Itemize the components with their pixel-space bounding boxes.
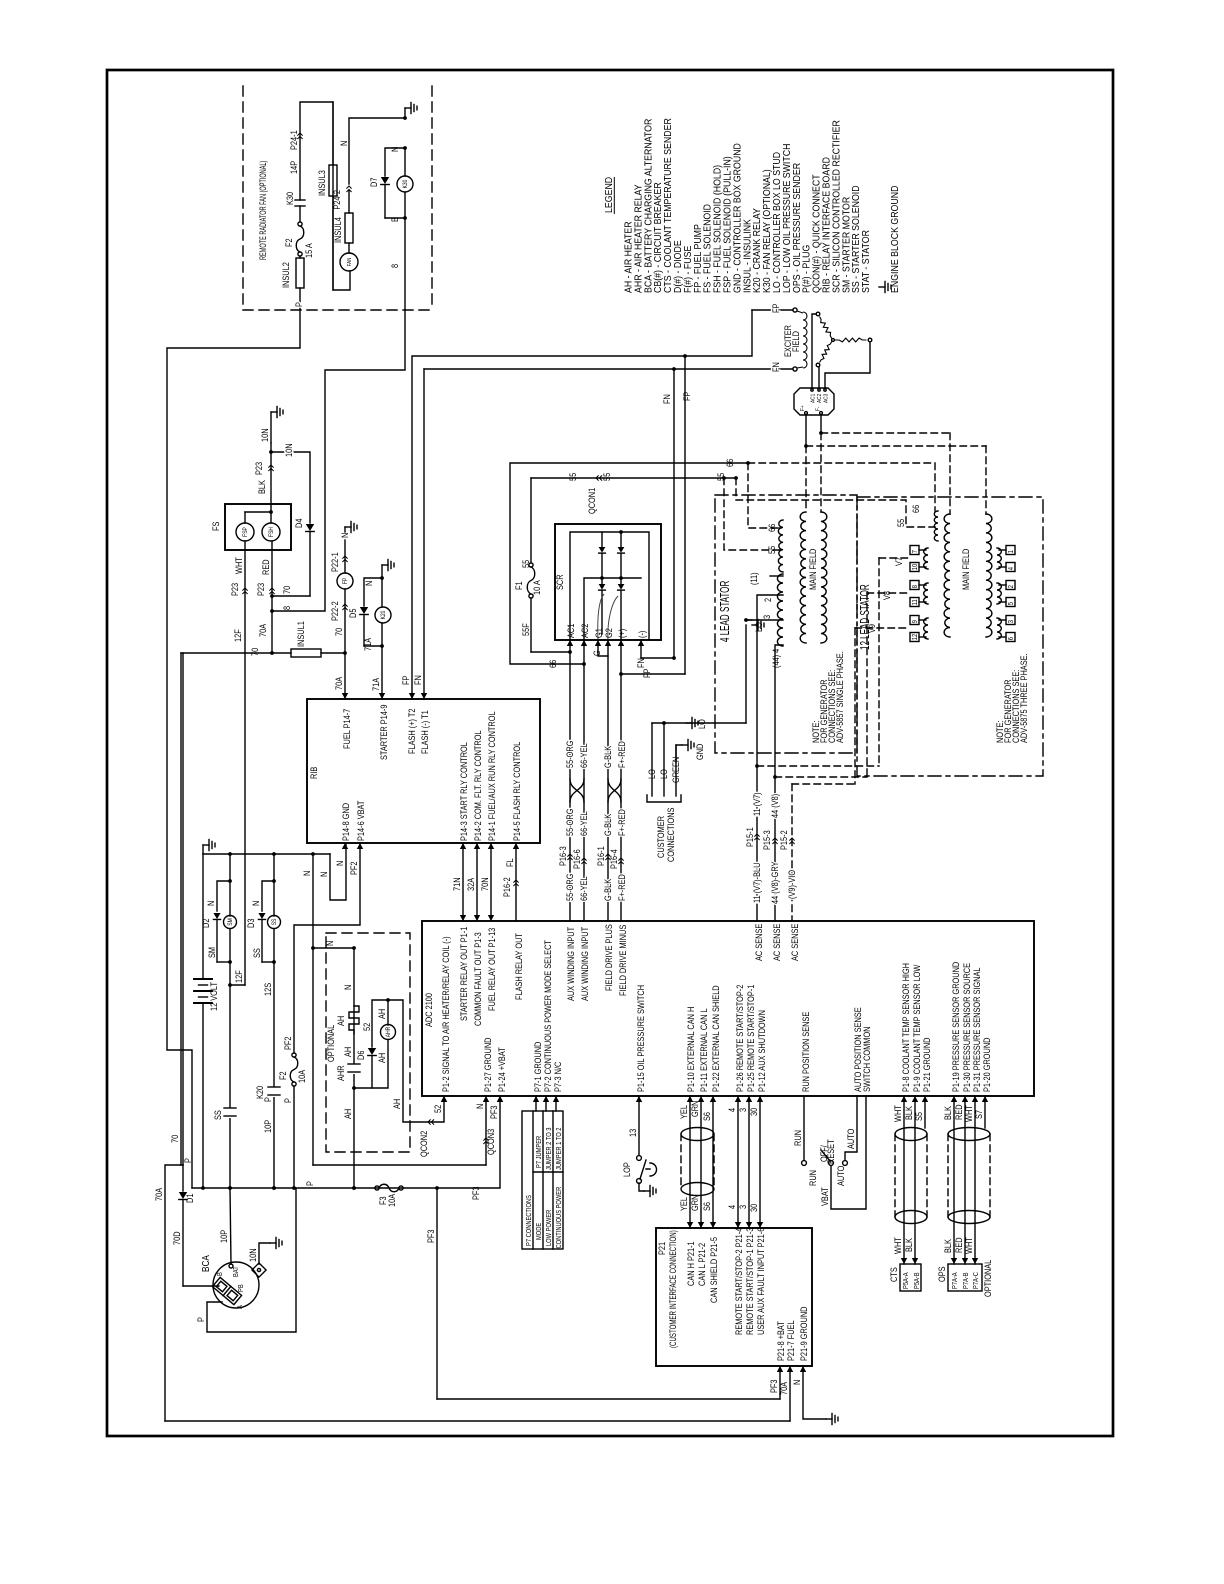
svg-text:G: G (592, 650, 602, 656)
svg-text:AUX WINDING INPUT: AUX WINDING INPUT (566, 927, 576, 1001)
plug P24-2 (346, 186, 351, 192)
svg-text:3: 3 (762, 615, 772, 619)
svg-text:PF3: PF3 (489, 1105, 499, 1119)
svg-text:ADC 2100: ADC 2100 (424, 993, 434, 1027)
svg-text:FN: FN (771, 362, 781, 372)
svg-text:66: 66 (548, 659, 558, 668)
wire 12S K20 contact (273, 962, 275, 1188)
svg-text:P1-24 +VBAT: P1-24 +VBAT (497, 1047, 507, 1092)
svg-text:P: P (294, 302, 304, 307)
battery 12 VOLT (202, 854, 204, 978)
svg-text:P1-26 REMOTE START/STOP-2: P1-26 REMOTE START/STOP-2 (735, 984, 745, 1092)
svg-text:RIB: RIB (309, 766, 319, 779)
wire CTS WHT (903, 1096, 905, 1264)
wire AH line (353, 948, 355, 1188)
svg-text:V8: V8 (882, 591, 892, 600)
svg-text:70: 70 (250, 647, 260, 656)
svg-text:CAN H P21-1: CAN H P21-1 (686, 1241, 696, 1286)
svg-text:P: P (183, 1158, 193, 1163)
svg-text:B: B (217, 1272, 225, 1276)
svg-text:P1-12 AUX SHUTDOWN: P1-12 AUX SHUTDOWN (757, 1010, 767, 1092)
svg-text:AUTO: AUTO (836, 1166, 846, 1186)
wire RED 70A from FSH (271, 541, 273, 653)
svg-text:MODE: MODE (536, 1223, 544, 1240)
svg-text:P21-9 GROUND: P21-9 GROUND (799, 1306, 809, 1361)
svg-text:REMOTE START/STOP-2 P21-4: REMOTE START/STOP-2 P21-4 (734, 1227, 744, 1335)
svg-text:YEL: YEL (679, 1197, 689, 1211)
svg-text:12S: 12S (263, 982, 273, 996)
svg-text:D4: D4 (294, 518, 304, 528)
wire P from PB-A (207, 1188, 296, 1332)
wire remote start 3 (748, 1096, 750, 1228)
exciter field winding (803, 312, 807, 368)
svg-text:70A: 70A (334, 676, 344, 690)
svg-text:G-BLK: G-BLK (603, 813, 613, 836)
ground K20 (381, 565, 383, 578)
svg-text:REMOTE START/STOP-1 P21-3: REMOTE START/STOP-1 P21-3 (745, 1227, 755, 1335)
svg-text:AC SENSE: AC SENSE (772, 923, 782, 961)
wire P7 jumpers (535, 1096, 537, 1111)
svg-text:FAN: FAN (347, 257, 354, 266)
OPS cable shield (948, 1128, 990, 1141)
svg-text:CONNECTIONS: CONNECTIONS (666, 807, 676, 862)
svg-text:P16-4: P16-4 (609, 849, 619, 869)
P7 connections table (522, 1111, 563, 1249)
svg-text:PF3: PF3 (426, 1229, 436, 1243)
wire plus to FP (620, 640, 622, 674)
svg-text:ENGINE BLOCK GROUND: ENGINE BLOCK GROUND (888, 185, 900, 293)
wire tap 3 to LO (746, 619, 783, 621)
svg-text:BLK: BLK (943, 1239, 953, 1253)
contact K20 (268, 1087, 280, 1097)
wire OPS RED (964, 1096, 966, 1264)
svg-text:12F: 12F (233, 629, 243, 642)
svg-text:F-: F- (815, 406, 822, 411)
customer connection leads (651, 723, 653, 796)
svg-text:RESET: RESET (826, 1139, 836, 1164)
wire 70A to P21 (789, 1366, 791, 1421)
wire 10P to BAT (230, 1188, 231, 1264)
wire PF3 rail (437, 1096, 500, 1188)
wire FN rail (424, 368, 793, 370)
svg-text:8: 8 (282, 606, 292, 610)
svg-text:12F: 12F (234, 970, 244, 983)
svg-text:N: N (475, 1104, 485, 1109)
svg-text:52: 52 (362, 1022, 372, 1031)
wire RIB gnd to N rail (330, 843, 346, 900)
svg-text:BLK: BLK (257, 480, 267, 494)
svg-text:FP: FP (771, 303, 781, 313)
svg-text:N: N (325, 941, 335, 946)
svg-text:66-YEL: 66-YEL (579, 743, 589, 768)
svg-text:CAN SHIELD P21-5: CAN SHIELD P21-5 (709, 1237, 719, 1303)
wire V9 AC sense (792, 783, 855, 785)
svg-text:70: 70 (170, 1134, 180, 1143)
wire 44 V8 AC sense (773, 775, 777, 779)
wire AC2 66-YEL down (583, 640, 585, 921)
svg-text:AH: AH (336, 1016, 346, 1026)
svg-text:AC SENSE: AC SENSE (754, 923, 764, 961)
wire OPS WHT (974, 1096, 976, 1264)
svg-text:S7: S7 (974, 1110, 984, 1119)
svg-text:71A: 71A (371, 677, 381, 691)
CAN cable shield (681, 1128, 714, 1141)
customer connections bracket (647, 795, 681, 802)
svg-text:S6: S6 (702, 1202, 712, 1211)
wire CTS shield S5 (924, 1096, 926, 1128)
wire tap 44-4 (775, 645, 783, 777)
svg-text:PF3: PF3 (769, 1379, 779, 1393)
svg-text:10: 10 (912, 563, 920, 570)
starter solenoid relay branch SS (273, 854, 275, 881)
wire 70 rail with INSUL1 (181, 652, 291, 654)
svg-text:P1-11 EXTERNAL CAN L: P1-11 EXTERNAL CAN L (699, 1008, 709, 1092)
svg-text:P1-15 OIL PRESSURE SWITCH: P1-15 OIL PRESSURE SWITCH (636, 985, 646, 1092)
switch RUN OFF AUTO (802, 1161, 807, 1166)
wire 13 oil pressure (638, 1096, 640, 1155)
svg-text:AC1: AC1 (566, 623, 576, 638)
svg-text:N: N (251, 901, 261, 906)
controller ADC 2100 box (422, 921, 1034, 1096)
svg-text:PB: PB (238, 1284, 246, 1292)
svg-text:14P: 14P (289, 160, 299, 174)
wire RUN position sense (803, 1096, 805, 1160)
svg-text:YEL: YEL (679, 1105, 689, 1119)
svg-text:(CUSTOMER INTERFACE CONNECTION: (CUSTOMER INTERFACE CONNECTION) (668, 1230, 679, 1348)
svg-text:F+-RED: F+-RED (617, 809, 627, 836)
svg-text:P14-2 COM. FLT. RLY CONTROL: P14-2 COM. FLT. RLY CONTROL (473, 730, 483, 841)
relay interface board RIB (307, 699, 540, 843)
svg-text:55: 55 (896, 518, 906, 527)
svg-text:P7A-B: P7A-B (963, 1272, 971, 1289)
svg-text:JUMPER 1 TO 2: JUMPER 1 TO 2 (556, 1127, 564, 1170)
svg-text:FIELD: FIELD (791, 331, 801, 352)
wire N from ADC P1-27 (313, 1164, 486, 1166)
wire 70N (490, 843, 492, 921)
wire 10N branch to D4 (271, 452, 310, 523)
svg-text:10P: 10P (263, 1119, 273, 1133)
wire tap 11 (770, 575, 783, 577)
svg-text:USER AUX FAULT INPUT P21-6: USER AUX FAULT INPUT P21-6 (756, 1227, 766, 1335)
wire 10N BLK up (270, 443, 272, 512)
svg-text:S5: S5 (914, 1112, 924, 1121)
wire V9 (855, 627, 910, 629)
oil pressure sender plug OPS (948, 1264, 982, 1291)
wire 11 V7 AC sense (755, 764, 759, 768)
svg-text:SS: SS (272, 918, 279, 925)
svg-text:5: 5 (1008, 602, 1016, 606)
svg-text:D3: D3 (246, 918, 256, 928)
svg-text:P16-3: P16-3 (558, 846, 568, 866)
svg-text:RED: RED (261, 559, 271, 575)
SCR pins (567, 640, 573, 646)
svg-text:10N: 10N (260, 428, 270, 442)
svg-text:P24-1: P24-1 (289, 130, 299, 150)
svg-text:(+): (+) (617, 629, 627, 638)
svg-text:QCON3: QCON3 (486, 1128, 496, 1155)
svg-text:VBAT: VBAT (820, 1187, 830, 1206)
svg-text:FLASH (+) T2: FLASH (+) T2 (407, 708, 417, 754)
svg-text:STARTER P14-9: STARTER P14-9 (379, 704, 389, 760)
svg-text:PF2: PF2 (283, 1036, 293, 1050)
svg-text:AUTO: AUTO (846, 1129, 856, 1149)
svg-text:LO: LO (754, 622, 764, 632)
RIB bottom pins (342, 843, 348, 849)
svg-text:2: 2 (763, 598, 773, 602)
svg-text:D7: D7 (369, 177, 379, 187)
svg-text:P7-2 CONTINUOUS POWER MODE SEL: P7-2 CONTINUOUS POWER MODE SELECT (543, 940, 553, 1092)
wire F+-RED down (620, 674, 622, 921)
wire CAN H YEL (689, 1096, 691, 1228)
svg-text:(-): (-) (637, 630, 647, 638)
svg-text:11 (V7): 11 (V7) (752, 792, 762, 816)
svg-text:OPTIONAL: OPTIONAL (983, 1259, 993, 1297)
svg-text:3: 3 (738, 1108, 748, 1112)
svg-text:SWITCH COMMON: SWITCH COMMON (862, 1026, 872, 1092)
svg-text:3: 3 (738, 1205, 748, 1209)
svg-text:FP: FP (682, 391, 692, 401)
plug P16-3 (567, 854, 572, 860)
relay contact K30 (295, 199, 305, 201)
plug P16-4 (618, 858, 623, 864)
wire PF3 to P21 (779, 1366, 781, 1399)
svg-text:P16-1: P16-1 (596, 846, 606, 866)
relay coil K30 (404, 148, 406, 176)
svg-text:(V9)-VIO: (V9)-VIO (787, 870, 797, 899)
svg-text:70A: 70A (154, 1187, 164, 1201)
svg-text:P23: P23 (230, 583, 240, 596)
svg-text:LOW POWER: LOW POWER (546, 1209, 554, 1246)
svg-text:WHT: WHT (964, 1105, 974, 1122)
svg-text:LEGEND: LEGEND (602, 177, 614, 213)
svg-text:10N: 10N (248, 1248, 258, 1262)
svg-text:N: N (792, 1380, 802, 1385)
svg-text:V7: V7 (894, 557, 904, 566)
svg-text:P1-22 EXTERNAL CAN SHIELD: P1-22 EXTERNAL CAN SHIELD (711, 985, 721, 1092)
P21 bottom pins (777, 1366, 783, 1372)
svg-text:BLK: BLK (904, 1238, 914, 1252)
insulink INSUL3 (332, 102, 334, 165)
svg-text:LO: LO (697, 719, 707, 729)
P21 top pins (687, 1222, 693, 1228)
svg-text:SS: SS (252, 948, 262, 958)
solenoid coil FSH (262, 523, 280, 541)
svg-text:QCON1: QCON1 (587, 487, 597, 514)
battery charging alternator BCA (213, 1262, 259, 1308)
svg-text:2: 2 (1008, 585, 1016, 589)
svg-text:WHT: WHT (893, 1237, 903, 1254)
svg-text:N: N (319, 872, 329, 877)
svg-text:13: 13 (628, 1128, 638, 1137)
svg-text:P: P (305, 1181, 315, 1186)
svg-text:66: 66 (767, 523, 777, 532)
plug P24-1 (297, 133, 302, 139)
svg-text:(44) 4: (44) 4 (771, 648, 781, 668)
svg-text:MAIN FIELD: MAIN FIELD (808, 549, 818, 590)
svg-text:RUN: RUN (793, 1130, 803, 1146)
wire remote start 4 (737, 1096, 739, 1228)
ADC bottom pin arrows (441, 1096, 447, 1102)
svg-text:N: N (340, 533, 350, 538)
svg-text:SM: SM (228, 918, 235, 926)
svg-text:OPS: OPS (937, 1266, 947, 1282)
svg-text:P5A-A: P5A-A (903, 1272, 911, 1289)
wire 71N (462, 843, 464, 921)
stator tap coils right (997, 548, 1001, 569)
wire 55 to 4 lead stator (724, 478, 781, 550)
wire FL flash relay (515, 843, 517, 921)
svg-text:10P: 10P (219, 1229, 229, 1243)
svg-text:FSP: FSP (243, 527, 250, 537)
svg-text:7: 7 (912, 550, 920, 554)
terminal 10N (252, 1263, 266, 1277)
contact SS (224, 1108, 236, 1118)
svg-text:6: 6 (1008, 637, 1016, 641)
svg-text:FN: FN (636, 658, 646, 668)
svg-text:70: 70 (334, 627, 344, 636)
customer interface connection P21 (656, 1228, 812, 1366)
svg-text:9: 9 (912, 620, 920, 624)
svg-text:GND: GND (695, 744, 705, 760)
svg-text:66: 66 (911, 504, 921, 513)
svg-text:STARTER RELAY OUT P1-1: STARTER RELAY OUT P1-1 (459, 926, 469, 1021)
svg-text:LO: LO (647, 769, 657, 779)
svg-text:AH: AH (377, 1009, 387, 1019)
svg-text:WHT: WHT (234, 557, 244, 574)
svg-text:12 VOLT: 12 VOLT (209, 982, 219, 1011)
svg-text:P1-21 GROUND: P1-21 GROUND (922, 1037, 932, 1092)
svg-text:SM: SM (207, 947, 217, 958)
svg-text:PF3: PF3 (471, 1186, 481, 1200)
svg-text:AH: AH (343, 1109, 353, 1119)
svg-text:4: 4 (727, 1108, 737, 1112)
svg-text:P22-2: P22-2 (330, 601, 340, 621)
svg-text:P16-6: P16-6 (572, 849, 582, 869)
svg-text:GREEN: GREEN (671, 757, 681, 783)
diode D4 (306, 524, 314, 532)
svg-text:P: P (263, 1097, 273, 1102)
wire AC1 55-ORG down (569, 640, 571, 921)
wire CAN shield (712, 1096, 714, 1228)
svg-text:P7-3 N/C: P7-3 N/C (553, 1062, 563, 1092)
svg-text:CTS: CTS (889, 1267, 899, 1282)
svg-text:P23: P23 (256, 583, 266, 596)
svg-text:P1-20 GROUND: P1-20 GROUND (982, 1037, 992, 1092)
4 lead stator dashed box (715, 495, 857, 753)
diode D6 (368, 1048, 376, 1056)
svg-text:FN: FN (662, 394, 672, 404)
svg-text:INSUL2: INSUL2 (281, 262, 291, 288)
fuse F1 10A (530, 478, 532, 563)
svg-text:FIELD DRIVE PLUS: FIELD DRIVE PLUS (604, 924, 614, 991)
wire 8 from K30 to FS area (272, 218, 405, 611)
rotating rectifier wye (816, 312, 820, 316)
relay coil K20 (381, 578, 383, 607)
svg-text:P1-19 PRESSURE SENSOR GROUND: P1-19 PRESSURE SENSOR GROUND (951, 962, 961, 1092)
svg-text:G2: G2 (604, 628, 614, 638)
svg-text:FP: FP (401, 675, 411, 685)
svg-text:71N: 71N (452, 877, 462, 891)
svg-text:GRN: GRN (690, 1101, 700, 1117)
starter motor relay branch SM (229, 854, 231, 881)
svg-text:P15-1: P15-1 (745, 827, 755, 847)
svg-text:STAT - STATOR: STAT - STATOR (860, 230, 872, 293)
plug P16-1 (605, 854, 610, 860)
wire F+ to main fields (805, 415, 807, 446)
svg-text:RED: RED (954, 1104, 964, 1120)
wire CTS BLK (914, 1096, 916, 1264)
svg-text:BAT: BAT (233, 1266, 241, 1277)
svg-text:N: N (302, 871, 312, 876)
svg-text:SS: SS (213, 1110, 223, 1120)
svg-text:FUEL P14-7: FUEL P14-7 (342, 708, 352, 749)
diode D7 (385, 148, 405, 176)
svg-text:10A: 10A (297, 1069, 307, 1083)
svg-text:4 LEAD STATOR: 4 LEAD STATOR (718, 581, 732, 642)
ground fan box (404, 108, 406, 118)
svg-text:N: N (343, 985, 353, 990)
svg-text:30: 30 (749, 1107, 759, 1116)
svg-text:FIELD DRIVE MINUS: FIELD DRIVE MINUS (618, 924, 628, 996)
svg-text:P5A-B: P5A-B (914, 1272, 922, 1289)
svg-text:JUMPER 2 TO 3: JUMPER 2 TO 3 (546, 1127, 554, 1170)
wire CAN L GRN (700, 1096, 702, 1228)
12 lead stator dashed box (857, 497, 1043, 776)
main field winding 12 lead (944, 514, 950, 637)
wire aux shutdown 30 (759, 1096, 761, 1228)
wire wye to AC box (812, 314, 816, 388)
wire fan to K30 coil (349, 118, 405, 184)
svg-text:V9: V9 (867, 624, 877, 633)
svg-text:FSH: FSH (269, 527, 276, 537)
svg-text:N: N (339, 141, 349, 146)
ground LOP (639, 1183, 644, 1191)
wire minus to FN (640, 640, 642, 658)
svg-text:B: B (390, 217, 400, 222)
svg-text:A: A (237, 1305, 245, 1309)
svg-text:AC SENSE: AC SENSE (790, 923, 800, 961)
wire N rail (203, 853, 330, 855)
svg-text:55: 55 (568, 472, 578, 481)
insulink INSUL2 (299, 256, 301, 258)
fuse F2 10A (292, 1053, 296, 1057)
svg-text:ADV-5857 SINGLE PHASE.: ADV-5857 SINGLE PHASE. (835, 651, 845, 743)
svg-text:P1-30 PRESSURE SENSOR SOURCE: P1-30 PRESSURE SENSOR SOURCE (962, 963, 972, 1092)
plug P16-6 (581, 858, 586, 864)
drawing border frame (107, 70, 1113, 1436)
fuel solenoid box FS (225, 504, 291, 550)
svg-text:G1: G1 (594, 628, 604, 638)
svg-text:RED: RED (954, 1237, 964, 1253)
svg-text:PF2: PF2 (349, 861, 359, 875)
wire AH output to QCON2 (388, 1000, 444, 1122)
svg-text:P1-8 COOLANT TEMP SENSOR HIGH: P1-8 COOLANT TEMP SENSOR HIGH (901, 963, 911, 1092)
wire FN vertical to SCR (673, 369, 675, 658)
svg-text:66-YEL: 66-YEL (579, 876, 589, 901)
svg-text:G-BLK: G-BLK (603, 878, 613, 901)
svg-text:11 (V7)-BLU: 11 (V7)-BLU (752, 863, 762, 903)
svg-text:D6: D6 (356, 1050, 366, 1060)
svg-text:P7A-C: P7A-C (973, 1272, 981, 1289)
svg-text:D2: D2 (201, 918, 211, 928)
svg-text:G-BLK: G-BLK (603, 745, 613, 768)
svg-text:AH: AH (392, 1099, 402, 1109)
svg-text:N: N (364, 581, 374, 586)
svg-text:ADV-5875 THREE PHASE.: ADV-5875 THREE PHASE. (1019, 653, 1029, 743)
svg-text:LOP: LOP (622, 1162, 632, 1177)
starter solenoid SS (273, 881, 275, 916)
svg-text:K30: K30 (285, 192, 295, 205)
